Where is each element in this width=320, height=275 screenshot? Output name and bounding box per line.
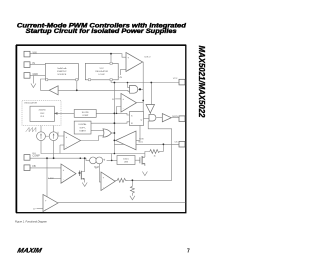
- current source I1: [37, 132, 58, 141]
- wire CS pin: [114, 143, 179, 145]
- svg-text:1.23V: 1.23V: [48, 178, 54, 180]
- wire osc to c1: [40, 126, 42, 132]
- svg-text:START: START: [79, 129, 86, 132]
- svg-text:GND: GND: [33, 73, 39, 76]
- svg-text:SOFT-: SOFT-: [80, 127, 86, 129]
- junction dots: [46, 53, 164, 181]
- wire FB to error amp: [30, 167, 61, 169]
- wire summer to CS comparator: [99, 164, 101, 182]
- figure frame: [17, 45, 186, 212]
- wire box1 bottom to inverter net: [76, 79, 78, 90]
- wire UVLO minus stub: [120, 70, 126, 75]
- wire box2 bottom to VCC rail: [110, 79, 112, 83]
- wire flip-flop Q to gate: [144, 118, 150, 120]
- svg-text:MAX5021/MAX5022: MAX5021/MAX5022: [197, 46, 207, 118]
- svg-text:IN: IN: [33, 62, 36, 65]
- uvlo comparator: [118, 53, 151, 79]
- wire M2 source down: [142, 164, 145, 166]
- wire compA minus input: [117, 107, 121, 114]
- soft start box: [74, 121, 91, 134]
- wire c2 down to COMP net: [53, 141, 55, 159]
- wire GND pin to box1: [30, 75, 45, 77]
- wire inverter output up to box1: [41, 79, 50, 90]
- regulator box U2: [85, 62, 118, 80]
- svg-text:100ns: 100ns: [123, 158, 129, 160]
- wire COMP pin to summer: [30, 158, 90, 160]
- wire osc to c2: [53, 126, 55, 132]
- flip-flop U5: [130, 112, 144, 126]
- wire current-limit feedback: [132, 121, 171, 180]
- svg-text:LEB: LEB: [124, 162, 129, 164]
- svg-text:VIN: VIN: [33, 52, 37, 55]
- error amplifier: [48, 164, 76, 183]
- svg-text:NDRV: NDRV: [172, 116, 178, 118]
- wire VCC rail: [111, 82, 179, 84]
- wire compA output: [137, 102, 144, 104]
- wire error amp ref stub: [48, 177, 61, 179]
- pin L3 GND: [24, 73, 38, 79]
- wire VIN down to startup box2: [110, 54, 112, 63]
- wire sense resistor to ground arrow: [131, 193, 133, 196]
- pin L1 VIN: [24, 51, 37, 57]
- svg-text:OSC: OSC: [40, 113, 45, 115]
- svg-text:DIGITAL: DIGITAL: [79, 123, 88, 126]
- svg-text:-: -: [128, 69, 129, 72]
- svg-text:UVLO: UVLO: [145, 57, 151, 59]
- svg-text:80ns: 80ns: [139, 141, 144, 143]
- wire PWM comparator to or-gate: [81, 136, 104, 141]
- pin R2 NDRV: [172, 116, 185, 122]
- svg-text:VCC: VCC: [100, 68, 105, 70]
- svg-text:SLOPE: SLOPE: [82, 112, 90, 114]
- svg-text:COMP: COMP: [33, 155, 41, 158]
- wire flip-flop to inverter2: [136, 126, 140, 141]
- wire or-gate output: [112, 132, 115, 134]
- maxim logo: [17, 247, 43, 254]
- bottom amplifier: [33, 195, 58, 212]
- ground under GND pin: [31, 84, 36, 88]
- wire c1 to PWM comparator: [41, 141, 145, 154]
- svg-text:MAXIM: MAXIM: [17, 247, 43, 254]
- wire boxB output to flip-flop R: [91, 122, 130, 123]
- svg-text:CS: CS: [174, 142, 178, 144]
- pin L2 VCC: [24, 62, 35, 68]
- transistor M1: [80, 171, 82, 180]
- comparator A1: [112, 94, 137, 113]
- svg-text:STARTUP: STARTUP: [57, 70, 67, 73]
- wire gate to buffer: [156, 117, 162, 119]
- oscillator dashed block: [22, 101, 61, 126]
- wire boxB to or-gate: [91, 130, 103, 132]
- wire and-gate output: [138, 88, 143, 90]
- wire driver feed: [150, 83, 152, 105]
- svg-text:9mA/1mA: 9mA/1mA: [57, 67, 67, 70]
- or gate G2: [103, 129, 112, 137]
- wire comp net vertical to bottom amp: [46, 158, 48, 197]
- wire VCC pin to box1: [30, 63, 45, 65]
- svg-text:FB: FB: [33, 165, 36, 168]
- wire inverter to and-gate input 2: [58, 90, 130, 91]
- arrow into oscillator: [54, 112, 74, 114]
- wire main vertical bus: [113, 83, 115, 154]
- inverter U4: [116, 131, 144, 150]
- wire compA plus stub: [115, 98, 121, 100]
- pin R1 VCC: [173, 78, 185, 85]
- svg-text:TON: TON: [139, 138, 144, 140]
- svg-text:Q: Q: [140, 119, 142, 121]
- startup box U1: [45, 63, 78, 80]
- down triangle driver: [146, 105, 155, 114]
- wire and-gate input 1: [128, 83, 130, 88]
- wire UVLO output down: [142, 62, 145, 112]
- inverter U3: [49, 86, 58, 95]
- cs comparator: [95, 168, 115, 191]
- svg-text:7.4V: 7.4V: [118, 77, 123, 79]
- svg-text:7: 7: [187, 249, 190, 255]
- pwm comparator: [64, 132, 81, 150]
- svg-text:COMP: COMP: [82, 115, 89, 117]
- ground under M1: [82, 183, 87, 187]
- wire CS comparator output resistor link: [128, 179, 133, 181]
- leb box: [117, 156, 135, 165]
- svg-text:LOGIC: LOGIC: [98, 74, 105, 76]
- sense resistor R3 vertical: [130, 186, 134, 193]
- svg-text:REGULATOR: REGULATOR: [95, 70, 108, 73]
- wire summer to LEB: [107, 159, 117, 161]
- summer current source: [90, 157, 103, 164]
- and gate G1: [130, 85, 138, 93]
- wire M1 source: [81, 179, 84, 183]
- svg-text:VCC: VCC: [173, 78, 178, 80]
- wire M1 drain: [81, 158, 84, 171]
- ground under M2: [142, 172, 147, 176]
- wire pwm minus stub: [60, 144, 64, 146]
- wire CS filter vertical: [162, 144, 164, 151]
- sawtooth ramp: [26, 127, 36, 131]
- wire ramp net join: [111, 154, 113, 161]
- svg-text:Figure 1. Functional Diagram: Figure 1. Functional Diagram: [15, 219, 48, 223]
- wire inverter2 output: [114, 139, 115, 141]
- output buffer: [162, 114, 171, 122]
- wire oscA output to flip-flop S: [96, 113, 129, 115]
- wire ramp to PWM comparator: [58, 132, 64, 136]
- wire buffer to NDRV pin: [171, 117, 179, 119]
- pin R3 CS: [174, 141, 185, 147]
- svg-text:SOURCE: SOURCE: [57, 74, 67, 76]
- wire VIN to UVLO: [30, 54, 126, 58]
- wire vertical sense resistor lead: [131, 180, 133, 186]
- transistor M2: [140, 156, 145, 165]
- wire resistor to M2 drain: [145, 152, 150, 158]
- current sense resistor R1: [139, 141, 164, 157]
- svg-text:262kHz: 262kHz: [39, 110, 46, 112]
- svg-text:CLK: CLK: [40, 116, 45, 118]
- ground under R3: [130, 196, 135, 200]
- ground stem under GND pin: [32, 76, 34, 84]
- slope comp box: [74, 110, 96, 118]
- driver and gate: [149, 114, 156, 121]
- pin L5 FB: [24, 165, 36, 171]
- wire down-triangle to gate: [149, 113, 151, 114]
- wire LEB gate: [135, 159, 140, 161]
- wire amp lower stub: [37, 207, 44, 209]
- wire bottom rail: [58, 202, 186, 204]
- pin L4 COMP: [24, 155, 40, 161]
- svg-text:CLK: CLK: [32, 153, 37, 155]
- comparator output resistor R2: [115, 178, 128, 182]
- svg-text:OSCILLATOR: OSCILLATOR: [24, 102, 37, 105]
- svg-text:Startup Circuit for Isolated P: Startup Circuit for Isolated Power Suppl…: [26, 28, 178, 35]
